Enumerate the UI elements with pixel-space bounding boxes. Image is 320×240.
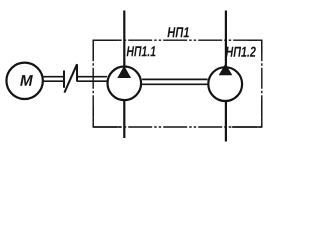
motor M circle	[6, 63, 42, 99]
motor label М	[20, 75, 33, 86]
pipe below pump НП1.2	[225, 101, 227, 142]
enclosure box corner stubs (solid)	[93, 40, 262, 127]
wire shaft coupling to pump НП1.1 (double line)	[77, 77, 107, 82]
pipe below pump НП1.1	[123, 100, 125, 138]
label НП1	[167, 27, 189, 37]
label НП1.2	[226, 47, 256, 57]
label НП1.1	[127, 46, 156, 56]
coupling right bar	[76, 64, 78, 81]
coupling diagonal	[64, 64, 77, 92]
wire shaft motor to coupling (double line)	[43, 77, 64, 82]
pipe above pump НП1.1	[123, 11, 125, 67]
wire shaft pump НП1.1 to pump НП1.2 (double line)	[142, 79, 208, 84]
coupling left bar	[63, 71, 65, 88]
pump НП1.1 circle	[108, 67, 142, 101]
pump НП1.2 circle	[208, 67, 242, 101]
pipe above pump НП1.2	[225, 11, 227, 68]
pump НП1.2 triangle	[219, 64, 231, 75]
enclosure box НП1 (dash-dot frame)	[93, 40, 262, 127]
pump НП1.1 triangle	[118, 67, 130, 78]
